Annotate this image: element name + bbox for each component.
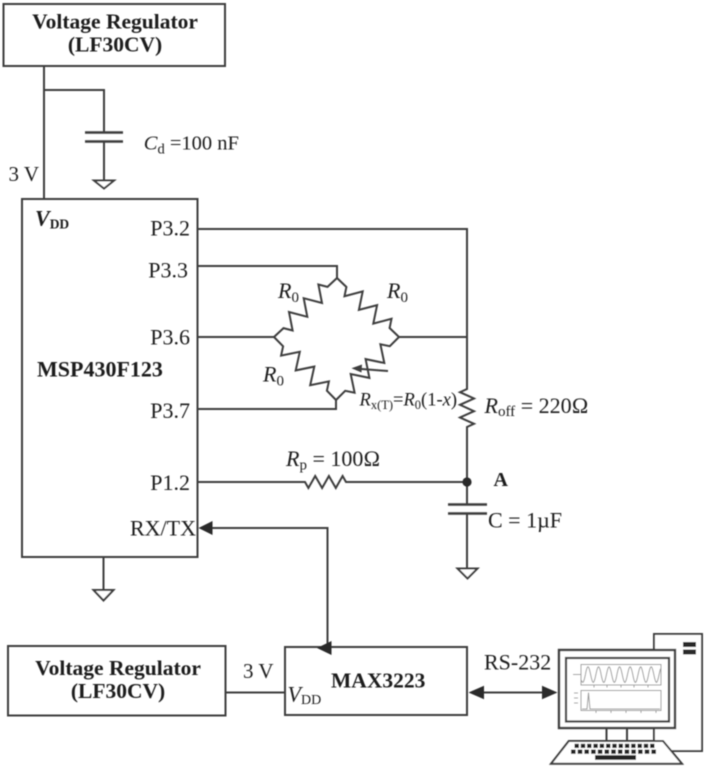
wire 3V regulator to MAX3223 <box>226 692 286 694</box>
svg-text:P3.3: P3.3 <box>148 258 188 283</box>
wire C to ground <box>466 514 468 569</box>
svg-text:Voltage Regulator: Voltage Regulator <box>35 656 201 680</box>
variable-resistor arrow on Rx(T) <box>355 369 388 372</box>
svg-text:(LF30CV): (LF30CV) <box>68 33 162 57</box>
variable-resistor arrowhead <box>352 365 363 373</box>
MSP430F123 U1 box <box>22 199 198 557</box>
svg-text:RX/TX: RX/TX <box>130 516 196 541</box>
svg-text:P3.6: P3.6 <box>150 325 190 350</box>
arrowhead on MAX3223 top edge <box>317 641 332 655</box>
resistor Rx(T) bridge bottom-right arm <box>336 337 399 400</box>
monitor stand legs <box>607 728 628 741</box>
ground (C) <box>458 569 478 579</box>
ground (Cd) <box>94 181 114 189</box>
wire branch to Cd <box>44 90 104 132</box>
computer monitor <box>559 650 675 728</box>
capacitor C plates <box>448 503 487 506</box>
tower vent bars <box>683 642 696 647</box>
screen top plot (sine) <box>573 665 661 688</box>
resistor R0 bridge top-left arm <box>274 278 337 337</box>
svg-text:(LF30CV): (LF30CV) <box>71 679 165 703</box>
wire P3.7 to bridge bottom <box>198 400 337 409</box>
voltage regulator U2 box (top) <box>4 4 226 66</box>
RS-232 arrowhead right <box>542 686 558 699</box>
ground (MSP430) <box>103 557 105 590</box>
wire 3V from regulator to MSP VDD <box>43 66 45 199</box>
svg-text:Rp = 100Ω: Rp = 100Ω <box>285 446 380 474</box>
resistor R0 bridge bottom-left arm <box>274 337 336 400</box>
resistor Rp <box>304 476 347 488</box>
wire Roff to node A <box>466 428 468 504</box>
svg-text:3 V: 3 V <box>243 659 274 683</box>
screen bottom plot (spike) <box>574 691 661 714</box>
wire P3.2 to right rail <box>198 229 468 388</box>
resistor R0 bridge top-right arm <box>337 278 399 337</box>
computer tower <box>654 634 702 751</box>
resistor Roff <box>460 388 474 428</box>
arrowhead into RX/TX <box>199 521 213 535</box>
wire P1.2 to Rp <box>198 481 305 483</box>
wire bridge right to rail <box>399 336 467 338</box>
capacitor Cd plates <box>85 131 123 134</box>
wire P3.6 to bridge left <box>198 336 275 338</box>
wire Rp to node A <box>347 481 467 483</box>
svg-text:Voltage Regulator: Voltage Regulator <box>32 10 198 34</box>
svg-text:3 V: 3 V <box>9 162 40 186</box>
svg-text:P3.7: P3.7 <box>150 398 190 423</box>
svg-text:A: A <box>494 469 509 491</box>
wire P3.3 to bridge top <box>198 266 338 278</box>
computer keyboard <box>551 741 682 764</box>
svg-text:C = 1µF: C = 1µF <box>488 508 562 533</box>
wire RX/TX to MAX3223 <box>211 528 328 647</box>
svg-text:RS-232: RS-232 <box>484 650 551 675</box>
wire Cd to ground <box>103 142 105 181</box>
svg-text:MSP430F123: MSP430F123 <box>37 357 163 382</box>
MAX3223 U4 box <box>285 647 467 715</box>
wire RS-232 <box>479 692 548 694</box>
svg-text:P1.2: P1.2 <box>150 470 190 495</box>
keyboard keys <box>571 744 656 760</box>
RS-232 arrowhead left <box>469 686 485 699</box>
svg-text:P3.2: P3.2 <box>150 216 190 241</box>
voltage regulator U3 box (bottom) <box>8 646 226 716</box>
svg-text:MAX3223: MAX3223 <box>331 669 426 693</box>
node A junction dot <box>462 477 471 486</box>
